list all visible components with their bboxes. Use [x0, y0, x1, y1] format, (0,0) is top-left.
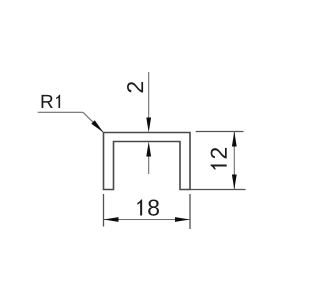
dimension 12 bottom extension line — [190, 189, 246, 191]
dimension 12 top extension line — [196, 131, 244, 133]
dimension label 2 (wall thickness) — [127, 82, 143, 92]
dimension 2 upper arrow line — [148, 72, 150, 128]
leader line diagonal segment — [83, 112, 104, 132]
dimension 2 lower arrow line — [148, 146, 150, 174]
dimension 12 bottom arrowhead — [232, 175, 237, 190]
U-channel profile outline — [104, 133, 191, 190]
dimension 12 line — [233, 132, 235, 190]
dimension 2 lower arrowhead — [146, 142, 151, 157]
dimension 12 top arrowhead — [232, 132, 237, 147]
leader line horizontal segment — [38, 111, 83, 113]
dimension 18 left extension line — [103, 194, 105, 227]
dimension 18 right extension line — [189, 194, 191, 229]
dimension label 18 (width) — [137, 199, 159, 215]
dimension 18 line — [104, 219, 191, 221]
leader label R1 — [42, 95, 61, 108]
leader arrowhead at rounded corner — [91, 120, 103, 132]
dimension 2 upper arrowhead — [146, 118, 151, 133]
dimension 18 right arrowhead — [175, 217, 190, 222]
dimension label 12 (height) — [211, 148, 227, 170]
dimension 18 left arrowhead — [104, 217, 119, 222]
